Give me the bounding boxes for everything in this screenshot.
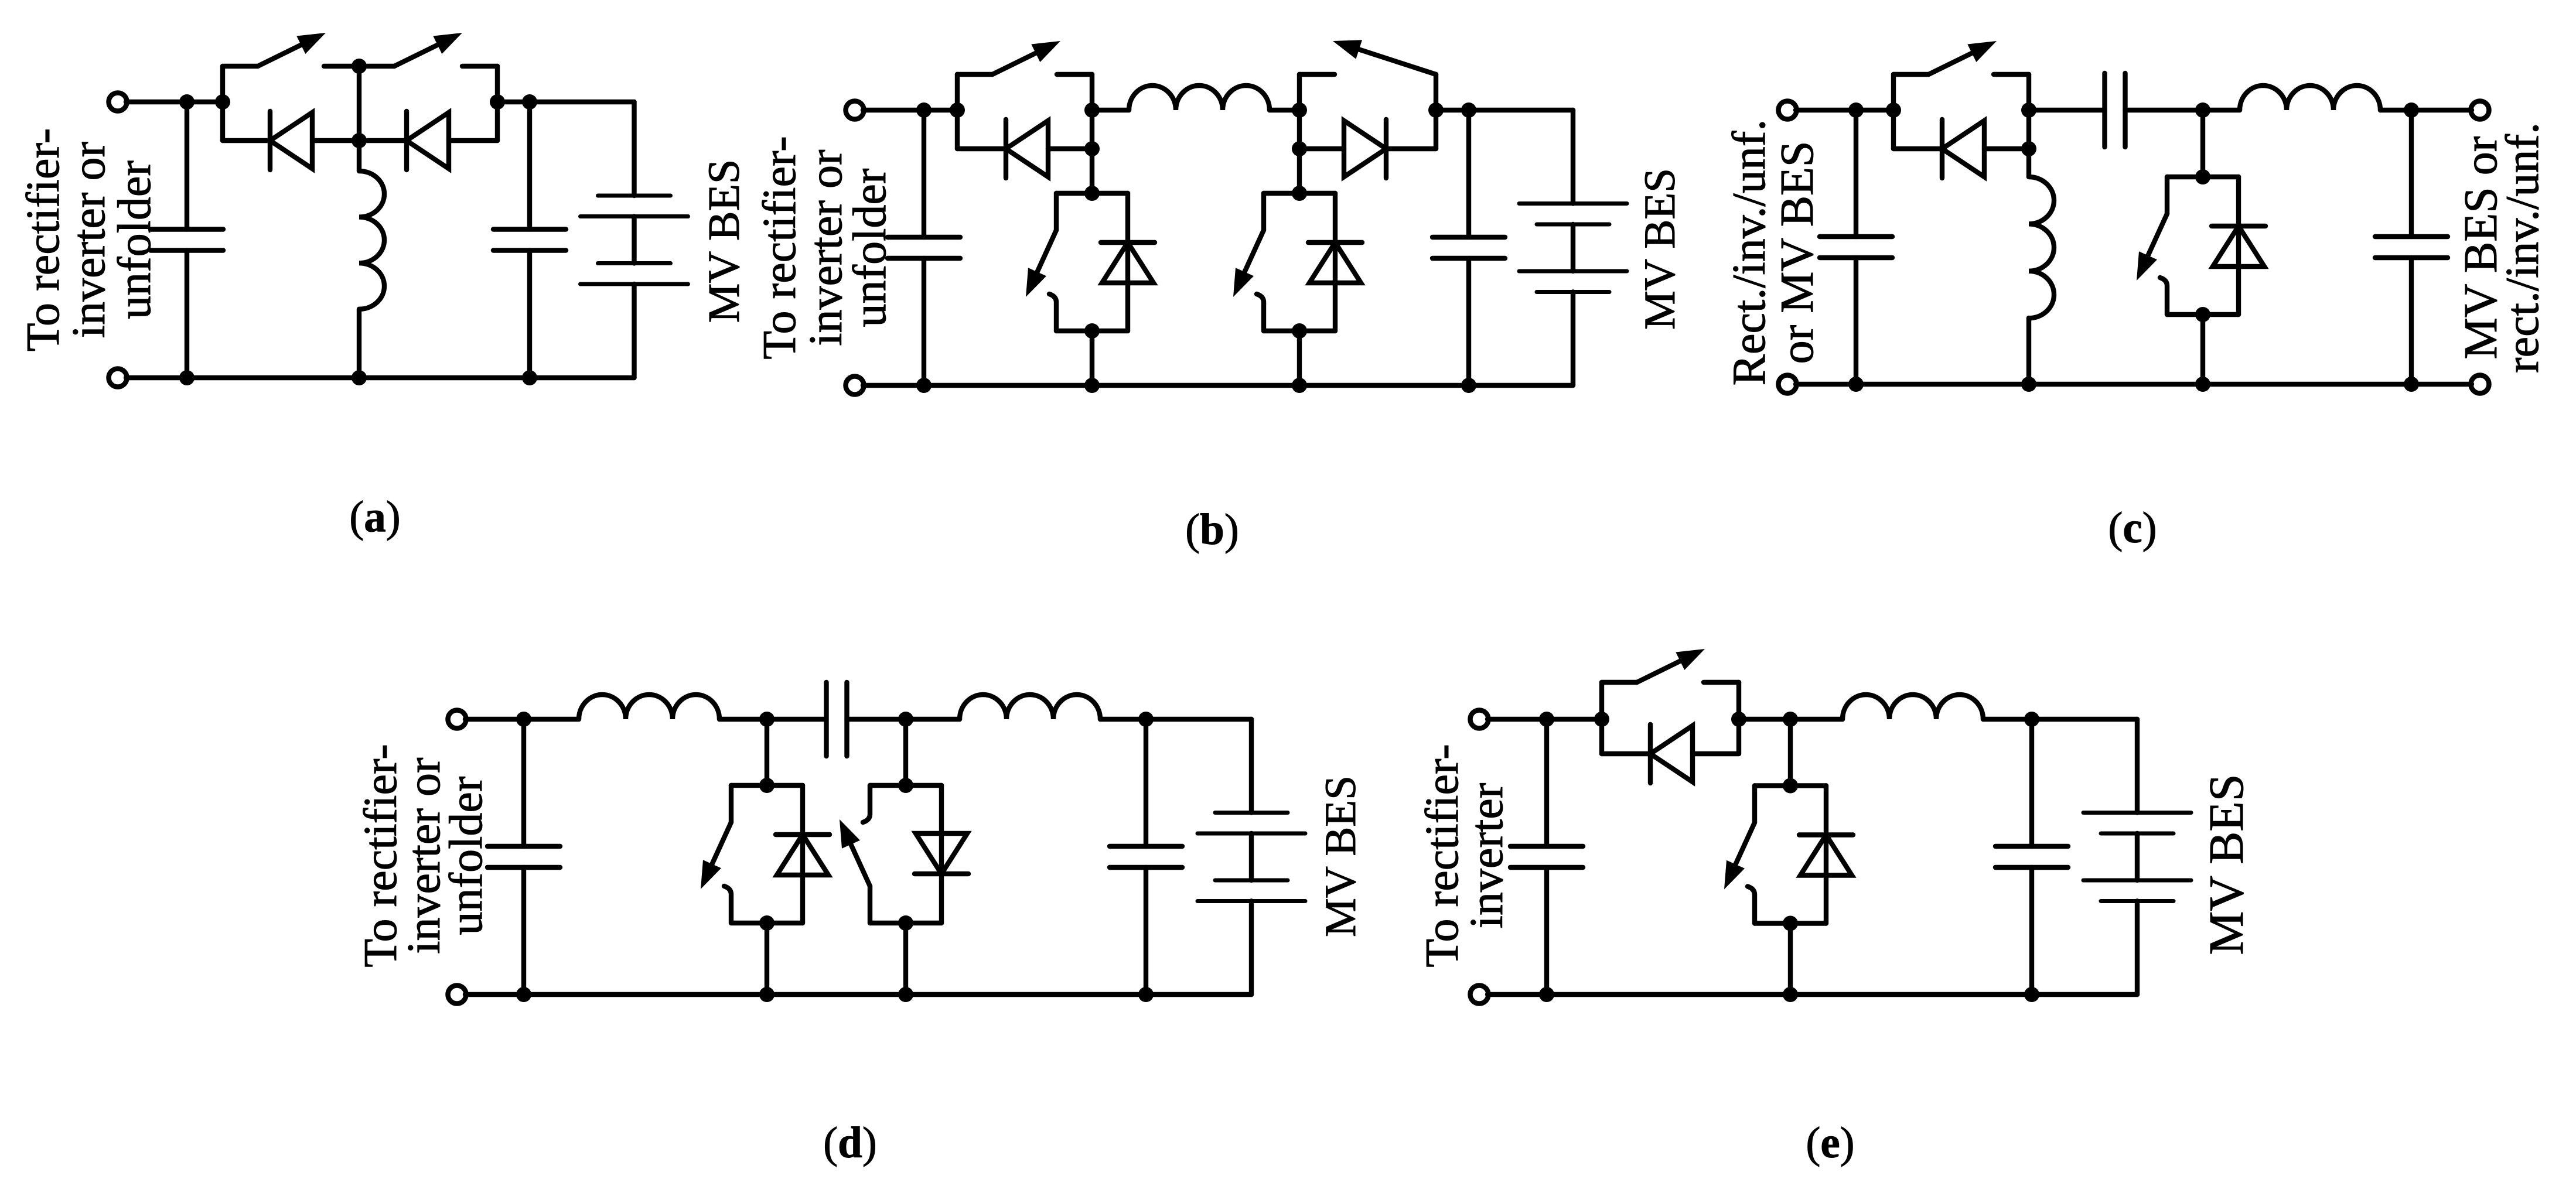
node (e) output-cap bottom — [2024, 987, 2039, 1002]
terminal (a) bottom — [109, 369, 127, 387]
diode D2 (e) — [1799, 835, 1853, 876]
wire (e) diode row left — [1602, 751, 1650, 756]
wire (b) top-left — [863, 108, 957, 112]
svg-text:unfolder: unfolder — [441, 776, 492, 935]
terminal (c) right top — [2471, 101, 2489, 119]
switch S3 (b) — [1026, 193, 1056, 331]
wire (a) right riser — [495, 66, 500, 141]
wire (c) cell riser — [2200, 110, 2205, 177]
text (c) right label — [2455, 122, 2548, 373]
node (d) cell1 bottom — [759, 915, 774, 931]
inductor L (b) — [1129, 86, 1270, 110]
label (d) — [823, 1119, 877, 1167]
wire (b) cell1 top row — [1056, 191, 1128, 196]
node (c) left riser on wire — [1886, 102, 1901, 118]
wire (b) cell1 to bottom — [1090, 331, 1094, 385]
svg-text:(e): (e) — [1806, 1119, 1854, 1167]
svg-text:unfolder: unfolder — [844, 168, 896, 327]
svg-text:inverter: inverter — [1461, 783, 1513, 929]
diode D1 (d) — [776, 835, 830, 875]
battery MV BES (b) — [1519, 204, 1627, 292]
wire (e) top right — [1983, 717, 2137, 722]
node (a) input-cap bottom — [179, 370, 195, 385]
capacitor Cin (e) plates — [1510, 846, 1583, 867]
wire (e) cell bottom row — [1755, 921, 1826, 925]
node (b) left riser on wire — [950, 102, 965, 118]
node (c) output-cap bottom — [2404, 377, 2419, 392]
node (b) cell2 bottom-wire — [1292, 378, 1307, 393]
capacitor Cout (d) — [1144, 719, 1148, 994]
wire (c) below inductor — [2026, 318, 2031, 384]
capacitor Cin (b) — [922, 110, 926, 385]
capacitor Cin (a) plates — [151, 230, 223, 251]
node (b) right riser2 on wire — [1428, 102, 1444, 118]
wire (d) cell1 bottom row — [731, 921, 803, 925]
text (d) MV BES — [1316, 775, 1365, 937]
wire (e) left riser — [1599, 682, 1604, 754]
svg-text:inverter or: inverter or — [63, 142, 115, 338]
node (b) cell2 bottom — [1292, 323, 1307, 339]
capacitor Cout (b) — [1466, 110, 1471, 385]
capacitor Cin (d) plates — [487, 846, 560, 867]
svg-text:(a): (a) — [349, 493, 400, 541]
node (b) cell2 top — [1292, 186, 1307, 201]
inductor L1 (c) — [2029, 177, 2054, 318]
terminal (c) right bottom — [2471, 375, 2489, 394]
terminal (d) top — [448, 710, 466, 729]
wire (d) cell2 diode branch — [939, 785, 944, 923]
node (a) input-cap top — [179, 94, 195, 110]
node (e) cell bottom — [1783, 916, 1798, 931]
wire (d) cap to nodeB — [847, 717, 960, 722]
node (d) input-cap top — [516, 712, 531, 727]
wire (b) riser2 to cell2 — [1297, 149, 1302, 193]
wire (d) battery bottom corner — [1249, 901, 1254, 995]
node A (d) — [759, 712, 774, 727]
text (e) MV BES — [2199, 774, 2254, 955]
node (d) cell1 top — [759, 778, 774, 793]
capacitor Cin (b) plates — [888, 237, 960, 258]
terminal (e) bottom — [1470, 986, 1489, 1004]
capacitor Cs (d) — [827, 682, 847, 756]
diode D1 (a) — [270, 111, 312, 170]
wire (a) diode row left — [223, 138, 270, 143]
battery MV BES (d) — [1197, 813, 1305, 901]
capacitor Cout (d) plates — [1110, 846, 1182, 867]
capacitor Cout (c) plates — [2375, 237, 2448, 258]
wire (a) mid vertical — [357, 66, 361, 171]
wire (d) battery top corner — [1249, 719, 1254, 813]
svg-text:To rectifier-: To rectifier- — [754, 136, 806, 359]
node (e) input-cap top — [1539, 712, 1554, 727]
node (c) right riser on wire — [2021, 102, 2036, 118]
wire (d) L2 to corner — [1100, 717, 1251, 722]
wire (b) cell2 diode branch — [1333, 193, 1338, 331]
node (b) input-cap top — [916, 102, 932, 118]
node (a) switch1 left riser — [215, 94, 230, 110]
wire (c) cell to bottom — [2200, 315, 2205, 384]
wire (b) right riser2 — [1434, 74, 1438, 149]
svg-text:rect./inv./unf.: rect./inv./unf. — [2497, 122, 2548, 373]
switch S1 (a) — [223, 33, 359, 66]
node (b) cell1 bottom-wire — [1084, 378, 1100, 393]
wire (c) top mid-left — [2029, 108, 2105, 112]
capacitor Cs (c) — [2105, 73, 2125, 147]
text (b) left label — [754, 136, 896, 359]
wire (e) top mid — [1739, 717, 1843, 722]
inductor L2 (c) — [2240, 86, 2380, 110]
node (b) left riser2 on wire — [1292, 102, 1307, 118]
diode D1 (c) — [1942, 119, 1984, 178]
wire (a) diode row mid — [312, 138, 407, 143]
node (d) cell2 top — [898, 778, 913, 793]
node (d) cell2 bottom — [898, 915, 913, 931]
battery MV BES (e) — [2083, 813, 2191, 901]
svg-text:(d): (d) — [823, 1119, 877, 1167]
wire (e) battery bottom corner — [2135, 901, 2140, 995]
wire (b) diode2 row right — [1386, 146, 1436, 151]
wire (e) bottom — [1487, 992, 2137, 997]
diode D1 (e) — [1650, 724, 1693, 783]
wire (c) cell top row — [2167, 175, 2239, 179]
wire (b) cell1 bottom row — [1056, 329, 1128, 333]
label (e) — [1806, 1119, 1854, 1167]
switch S1 (b) — [957, 41, 1092, 74]
switch S2 (b) — [1299, 40, 1436, 74]
capacitor Cout (a) plates — [493, 230, 566, 251]
switch S2 (a) — [359, 33, 497, 66]
svg-text:Rect./inv./unf.: Rect./inv./unf. — [1724, 119, 1775, 386]
text (c) left label — [1724, 119, 1823, 386]
wire (e) cell top row — [1755, 783, 1826, 788]
wire (b) cell2 to bottom — [1297, 331, 1302, 385]
wire (a) diode row right — [449, 138, 497, 143]
wire (d) cell1 to bottom — [765, 923, 769, 994]
node (d) output-cap bottom — [1138, 987, 1154, 1002]
wire (a) battery bottom corner — [632, 284, 636, 378]
wire (b) left riser — [955, 74, 960, 149]
terminal (b) bottom — [846, 377, 864, 395]
wire (c) riser to inductor — [2026, 149, 2031, 177]
wire (c) top right — [2380, 108, 2472, 112]
switch S2 (e) — [1724, 786, 1755, 924]
node (c) cell bottom-wire — [2195, 377, 2210, 392]
node (e) output-cap top — [2024, 712, 2039, 727]
inductor L1 (d) — [579, 695, 719, 719]
wire (d) top-left — [465, 717, 579, 722]
wire (d) bottom — [465, 992, 1251, 997]
wire (b) left riser2 — [1297, 74, 1302, 149]
capacitor Cout (e) plates — [1995, 846, 2068, 867]
node (b) output-cap bottom — [1461, 378, 1476, 393]
node (a) switch mid top — [352, 59, 367, 74]
node (a) inductor bottom — [352, 370, 367, 385]
wire (c) diode row left — [1893, 146, 1942, 151]
node (c) output-cap top — [2404, 102, 2419, 118]
inductor L (e) — [1843, 695, 1983, 719]
wire (c) bottom — [1796, 382, 2472, 387]
wire (d) nodeA riser — [765, 719, 769, 785]
wire (b) top mid-right — [1270, 108, 1299, 112]
node (c) cell top-wire — [2195, 102, 2210, 118]
wire (d) cell2 to bottom — [903, 923, 908, 994]
wire (c) top mid-right — [2125, 108, 2240, 112]
label (a) — [349, 493, 400, 541]
switch S1 (e) — [1602, 649, 1739, 682]
wire (b) cell2 top row — [1264, 191, 1335, 196]
svg-text:MV BES: MV BES — [1636, 168, 1684, 330]
label (b) — [1185, 505, 1239, 554]
terminal (d) bottom — [448, 986, 466, 1004]
diode D4 (b) — [1308, 242, 1362, 283]
node (c) cell bottom — [2195, 307, 2210, 322]
switch S1 (c) — [1893, 41, 2029, 74]
capacitor Cin (e) — [1544, 719, 1549, 994]
wire (b) battery top corner — [1571, 110, 1575, 204]
node (c) diode row right — [2021, 141, 2036, 156]
node (b) output-cap top — [1461, 102, 1476, 118]
capacitor Cout (e) — [2029, 719, 2034, 994]
wire (b) cell2 bottom row — [1264, 329, 1335, 333]
node (e) cell top — [1783, 778, 1798, 794]
wire (e) cell diode branch — [1824, 786, 1828, 924]
switch S2 (c) — [2137, 177, 2167, 315]
svg-text:To rectifier-: To rectifier- — [18, 128, 69, 351]
svg-text:To rectifier-: To rectifier- — [1417, 744, 1468, 967]
node (c) input-cap top — [1848, 102, 1864, 118]
node (b) right riser1 on wire — [1084, 102, 1100, 118]
text (e) left label — [1417, 744, 1513, 967]
node (d) input-cap bottom — [516, 987, 531, 1002]
wire (c) left riser — [1891, 74, 1896, 149]
node (a) right riser on wire — [490, 94, 505, 110]
node (b) cell1 bottom — [1084, 323, 1100, 339]
wire (e) cell to bottom — [1788, 924, 1793, 995]
capacitor Cin (a) — [185, 102, 189, 378]
wire (c) diode row right — [1984, 146, 2029, 151]
node (a) output-cap top — [522, 94, 537, 110]
terminal (a) top — [109, 93, 127, 111]
wire (e) cell riser — [1788, 719, 1793, 786]
wire (a) top-left — [126, 100, 223, 104]
node (a) output-cap bottom — [522, 370, 537, 385]
wire (b) diode2 row left — [1299, 146, 1344, 151]
wire (a) bottom — [126, 375, 634, 380]
capacitor Cin (d) — [521, 719, 526, 994]
wire (b) riser1 to cell1 — [1090, 149, 1094, 193]
svg-text:MV BES: MV BES — [700, 159, 749, 323]
capacitor Cin (c) plates — [1820, 237, 1892, 258]
node (d) cell2 bottom-wire — [898, 987, 913, 1002]
wire (b) top mid-left — [1092, 108, 1129, 112]
node (a) diode row mid — [352, 133, 367, 148]
svg-text:(b): (b) — [1185, 505, 1239, 554]
wire (d) nodeB riser — [903, 719, 908, 785]
text (b) MV BES — [1636, 168, 1684, 330]
diode D2 (b) — [1344, 119, 1386, 178]
battery MV BES (a) — [581, 196, 688, 284]
node (d) output-cap top — [1138, 712, 1154, 727]
wire (b) diode1 row right — [1048, 146, 1092, 151]
wire (b) diode1 row left — [957, 146, 1006, 151]
text (a) MV BES — [700, 159, 749, 323]
wire (a) top-right — [497, 100, 634, 104]
node (c) inductor bottom — [2021, 377, 2036, 392]
switch S2 (d) — [840, 785, 870, 923]
node (d) cell1 bottom-wire — [759, 987, 774, 1002]
wire (c) cell bottom row — [2167, 312, 2239, 317]
inductor L2 (d) — [960, 695, 1100, 719]
wire (d) cell1 top row — [731, 783, 803, 788]
node (e) left riser on wire — [1594, 712, 1609, 727]
node (e) cell top-wire — [1783, 712, 1798, 727]
wire (c) top-left — [1796, 108, 1893, 112]
svg-text:(c): (c) — [2108, 504, 2157, 552]
inductor L1 (a) — [359, 171, 384, 309]
wire (a) below inductor — [357, 309, 361, 378]
node (b) diode2 row left — [1292, 141, 1307, 156]
diode D2 (c) — [2212, 226, 2265, 266]
node (c) cell top — [2195, 169, 2210, 184]
wire (e) right riser — [1736, 682, 1741, 754]
wire (e) battery top corner — [2135, 719, 2140, 813]
node (b) cell1 top — [1084, 186, 1100, 201]
wire (d) cell2 top row — [870, 783, 941, 788]
node B (d) — [898, 712, 913, 727]
svg-text:unfolder: unfolder — [109, 160, 161, 319]
diode D3 (b) — [1101, 242, 1155, 283]
wire (c) cell diode branch — [2236, 177, 2241, 315]
terminal (c) left top — [1779, 101, 1797, 119]
svg-text:MV BES: MV BES — [2199, 774, 2254, 955]
node (e) input-cap bottom — [1539, 987, 1554, 1002]
wire (a) left riser — [220, 66, 225, 141]
wire (b) battery bottom corner — [1571, 292, 1575, 386]
capacitor Cout (a) — [527, 102, 532, 378]
capacitor Cin (c) — [1854, 110, 1858, 384]
wire (d) cell2 bottom row — [870, 921, 941, 925]
terminal (c) left bottom — [1779, 375, 1797, 394]
text (d) left label — [355, 744, 492, 967]
node (c) input-cap bottom — [1848, 377, 1864, 392]
node (e) cell bottom-wire — [1783, 987, 1798, 1002]
wire (e) top-left — [1487, 717, 1602, 722]
wire (b) cell1 diode branch — [1125, 193, 1130, 331]
diode D2 (a) — [407, 111, 449, 170]
node (b) input-cap bottom — [916, 378, 932, 393]
diode D1 (b) — [1006, 119, 1048, 178]
svg-text:or MV BES: or MV BES — [1772, 141, 1823, 364]
wire (b) right riser1 — [1090, 74, 1094, 149]
diode D2 (d) — [915, 833, 968, 874]
svg-text:MV BES: MV BES — [1316, 775, 1365, 937]
wire (b) bottom — [863, 383, 1573, 388]
label (c) — [2108, 504, 2157, 552]
node (e) right riser on wire — [1731, 712, 1746, 727]
node (b) diode1 row right — [1084, 141, 1100, 156]
terminal (e) top — [1470, 710, 1489, 729]
wire (e) diode row right — [1693, 751, 1739, 756]
wire (a) battery top corner — [632, 102, 636, 196]
switch S1 (d) — [701, 785, 731, 923]
wire (d) L1 to nodeA — [719, 717, 827, 722]
wire (c) right riser — [2026, 74, 2031, 149]
switch S4 (b) — [1233, 193, 1264, 331]
capacitor Cout (c) — [2409, 110, 2414, 384]
wire (b) top right — [1436, 108, 1573, 112]
text (a) left label — [18, 128, 161, 351]
terminal (b) top — [846, 101, 864, 119]
capacitor Cout (b) plates — [1432, 237, 1505, 258]
wire (d) cell1 diode branch — [800, 785, 805, 923]
